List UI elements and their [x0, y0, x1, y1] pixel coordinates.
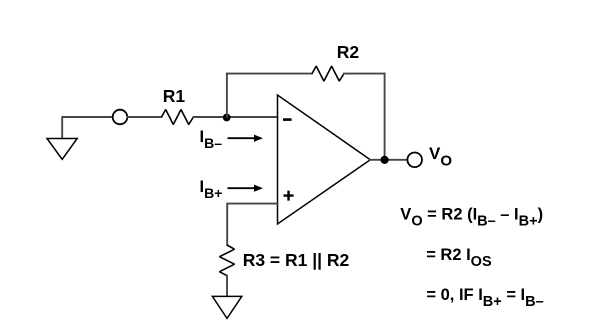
wire feedback top left segment [227, 73, 312, 75]
wire feedback down to output node [384, 74, 386, 160]
svg-text:R3 = R1 || R2: R3 = R1 || R2 [243, 250, 350, 270]
resistor R3 [220, 245, 235, 276]
node: output junction dot [381, 156, 389, 164]
svg-text:= R2 IOS: = R2 IOS [426, 246, 492, 270]
wire input terminal to R1 [128, 116, 162, 118]
wire junction up to feedback [226, 74, 228, 117]
ground (R3 side) [212, 296, 241, 318]
node: summing junction dot [223, 114, 231, 122]
current arrow IB- [228, 137, 255, 139]
svg-text:= 0, IF IB+ = IB–: = 0, IF IB+ = IB– [426, 286, 543, 310]
svg-text:R2: R2 [337, 42, 360, 62]
resistor R2 [312, 66, 344, 81]
svg-text:VO: VO [429, 144, 452, 170]
svg-text:IB+: IB+ [200, 178, 223, 201]
svg-text:IB–: IB– [200, 128, 223, 151]
wire R1 to op-amp inverting input [193, 116, 277, 118]
svg-text:VO = R2 (IB– – IB+): VO = R2 (IB– – IB+) [400, 205, 543, 229]
input terminal [113, 110, 128, 125]
wire feedback top right segment [344, 73, 385, 75]
op-amp inverting pin mark (-) [283, 118, 292, 121]
ground (input side) [47, 139, 77, 160]
wire op-amp output to terminal [370, 159, 407, 161]
wire input node to ground corner [62, 117, 112, 138]
svg-text:R1: R1 [163, 86, 186, 106]
op-amp non-inverting pin mark (+) [284, 191, 294, 201]
current arrow IB+ [228, 187, 255, 189]
op-amp U1 [278, 95, 371, 224]
resistor R1 [162, 110, 194, 125]
output terminal [407, 153, 422, 168]
wire op-amp non-inverting input [227, 204, 277, 245]
wire R3 to ground [226, 276, 228, 296]
